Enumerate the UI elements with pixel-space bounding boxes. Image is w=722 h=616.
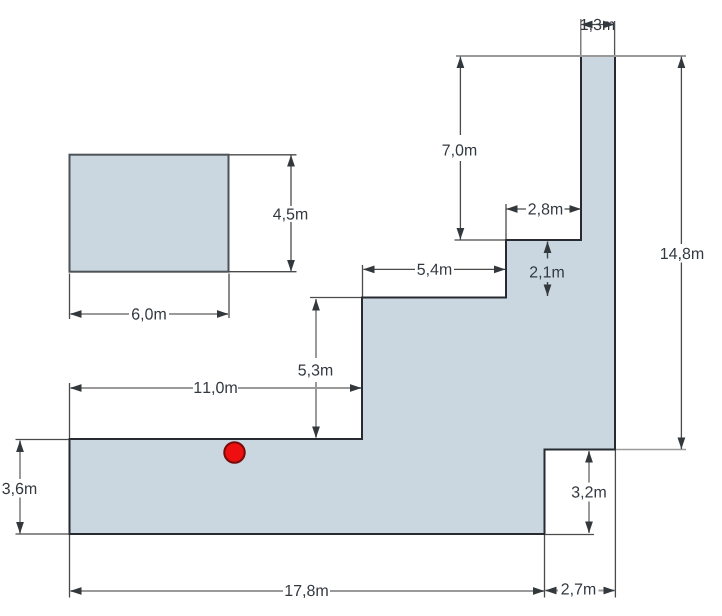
7,0m ext bottom [455, 239, 506, 241]
3,2m ext bottom [545, 534, 594, 536]
1,3m ext right [614, 21, 616, 55]
5,4m ext left [362, 265, 364, 297]
value label 5,3m [298, 364, 332, 377]
value label 11,0m [195, 382, 237, 395]
value label 2,8m [529, 203, 563, 216]
6,0m ext left [69, 274, 71, 320]
value label 4,5m [273, 209, 307, 222]
value label 7,0m [443, 144, 477, 157]
3,6m ext top [16, 439, 70, 441]
value label 2,7m [562, 583, 596, 596]
4,5m ext bottom [229, 271, 297, 273]
17,8m ext left [69, 535, 71, 598]
1,3m ext left [580, 19, 582, 55]
value label 2,1m [530, 266, 564, 279]
main L/stair-shaped floor polygon [70, 56, 616, 534]
value label 3,2m [572, 486, 606, 499]
small rectangle 6,0m x 4,5m [70, 155, 229, 272]
14,8m ext bottom [616, 449, 686, 451]
value label 17,8m [286, 585, 328, 598]
17,8m / 2,7m shared ext [544, 535, 546, 598]
value label 1,3m [581, 19, 614, 32]
5,3m ext top [310, 297, 361, 299]
2,8m ext left [505, 204, 507, 239]
value label 3,6m [2, 483, 36, 496]
3,6m ext bottom [16, 533, 70, 535]
top datum line y=55.6 (gray) [456, 55, 686, 57]
11,0m ext left [69, 383, 71, 438]
2,7m ext right (long) [614, 451, 616, 598]
6,0m ext right [228, 274, 230, 319]
red point marker [224, 442, 244, 462]
value label 14,8m [661, 248, 703, 261]
value label 6,0m [132, 308, 166, 321]
value label 5,4m [417, 264, 451, 277]
4,5m ext top [229, 154, 297, 156]
